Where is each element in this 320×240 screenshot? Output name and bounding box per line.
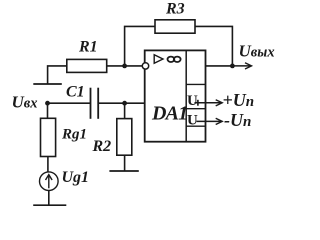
wire R3 right to output node — [195, 26, 232, 66]
wire node1 to R3 left — [125, 26, 155, 66]
arrowhead +Un — [216, 100, 223, 106]
svg-text:Ug1: Ug1 — [62, 169, 90, 186]
svg-text:U: U — [187, 113, 198, 129]
op-amp DA1 body — [145, 50, 206, 141]
node junction R1-R3-input — [122, 64, 127, 69]
svg-text:C1: C1 — [66, 84, 85, 101]
svg-text:Rg1: Rg1 — [61, 127, 87, 143]
resistor Rg1 — [41, 118, 56, 156]
ground at R2 — [109, 170, 138, 172]
op-amp infinity gain symbol — [168, 57, 181, 62]
node junction C1-R2-input — [122, 101, 127, 106]
wire node2 down to R2 — [124, 103, 126, 118]
node input Uvx — [45, 101, 50, 106]
svg-text:DA1: DA1 — [151, 103, 187, 125]
wire Rg1 to Ug1 — [47, 157, 49, 173]
resistor R2 — [117, 119, 132, 156]
ground at Ug1 — [33, 204, 66, 206]
op-amp inverting input circle — [142, 63, 148, 69]
wire C1 to op-amp noninverting input — [98, 102, 145, 104]
svg-text:U: U — [187, 93, 198, 109]
svg-text:Uвх: Uвх — [12, 93, 38, 112]
op-amp amplifier triangle symbol — [154, 55, 163, 64]
svg-text:Uвых: Uвых — [239, 41, 275, 60]
ground at R1 — [33, 83, 62, 85]
wire Uvx node to C1 — [48, 102, 91, 104]
arrowhead -Un — [216, 118, 223, 124]
resistor R1 — [67, 59, 107, 72]
wire -Un supply — [197, 120, 223, 122]
op-amp DA1 pin field row lines — [186, 84, 205, 126]
wire Uvx node down to Rg1 — [47, 103, 49, 118]
wire output arrow — [232, 65, 251, 67]
wire +Un supply — [195, 102, 223, 104]
wire op-amp output — [206, 65, 233, 67]
op-amp DA1 pin field divider — [185, 50, 187, 141]
wire ground to R1 left — [48, 66, 67, 84]
source Ug1 — [40, 172, 59, 191]
svg-text:R1: R1 — [78, 38, 98, 55]
wire Ug1 to ground — [48, 190, 50, 205]
svg-text:R2: R2 — [92, 138, 112, 155]
svg-text:R3: R3 — [165, 1, 185, 18]
resistor R3 — [155, 20, 195, 33]
node output junction — [230, 64, 235, 69]
plus sign stroke of U+ — [197, 100, 199, 106]
capacitor C1 — [91, 88, 99, 119]
wire R2 to ground — [124, 155, 126, 171]
arrowhead output — [245, 63, 252, 69]
wire R1 right to node1 — [107, 65, 143, 67]
